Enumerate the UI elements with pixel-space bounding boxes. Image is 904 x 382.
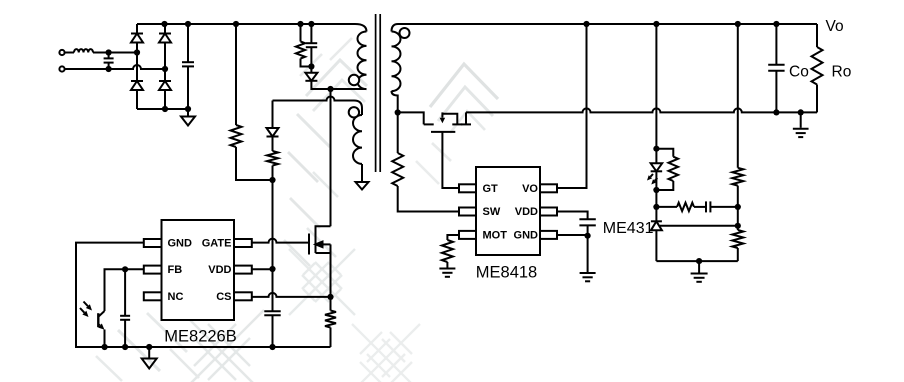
svg-text:ME431: ME431	[603, 220, 654, 237]
svg-text:CS: CS	[216, 291, 231, 303]
svg-text:GT: GT	[483, 183, 499, 195]
svg-text:SW: SW	[483, 206, 501, 218]
svg-text:Co: Co	[789, 64, 809, 81]
svg-text:NC: NC	[168, 291, 184, 303]
svg-text:GND: GND	[514, 230, 539, 242]
svg-text:MOT: MOT	[483, 230, 508, 242]
svg-text:VDD: VDD	[208, 264, 231, 276]
svg-text:VO: VO	[522, 183, 538, 195]
svg-text:FB: FB	[168, 264, 183, 276]
svg-text:ME8418: ME8418	[476, 264, 537, 282]
svg-text:GATE: GATE	[202, 238, 232, 250]
svg-text:ME8226B: ME8226B	[164, 328, 236, 346]
svg-text:Ro: Ro	[832, 64, 852, 81]
svg-text:Vo: Vo	[826, 18, 844, 35]
svg-text:VDD: VDD	[515, 206, 538, 218]
svg-text:GND: GND	[168, 238, 193, 250]
